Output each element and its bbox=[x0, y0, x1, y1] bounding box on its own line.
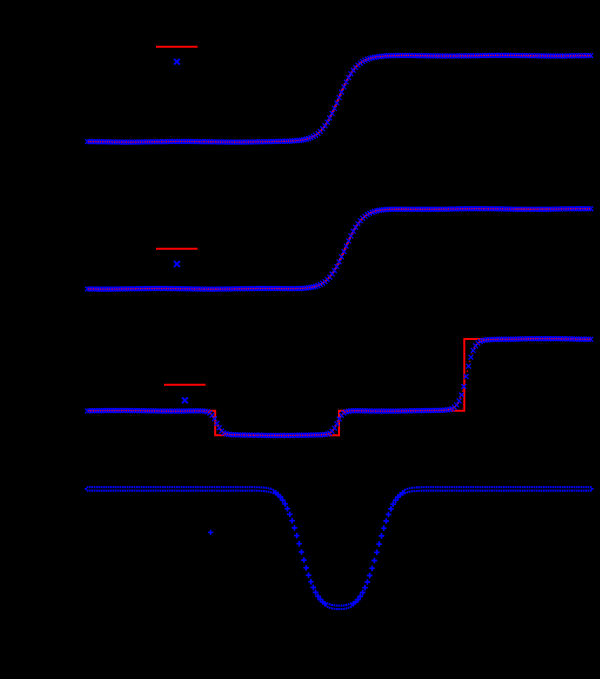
subplot1 legend blue x bbox=[174, 59, 180, 65]
subplot4 black fit line over markers bbox=[87, 489, 591, 608]
subplot2 red dotted fit line bbox=[88, 208, 590, 290]
subplot1 blue x-marker fit curve bbox=[85, 53, 593, 145]
subplot2 blue x-marker fit curve bbox=[85, 206, 593, 291]
subplot2 legend blue x bbox=[174, 261, 180, 267]
subplot3 legend red line bbox=[164, 384, 206, 386]
subplot4 blue plus-marker dip curve bbox=[85, 486, 594, 610]
subplot1 red dotted fit line bbox=[88, 55, 590, 143]
subplot3 red dotted fit line bbox=[88, 338, 590, 436]
subplot1 red target sigmoid bbox=[87, 56, 591, 142]
subplot2 red target sigmoid bbox=[87, 209, 591, 289]
subplot2 legend red line bbox=[156, 248, 198, 250]
subplot4 legend blue plus bbox=[208, 530, 213, 535]
subplot3 blue x-marker fit curve bbox=[85, 336, 593, 438]
subplot1 legend red line bbox=[156, 46, 198, 48]
subplot3 legend blue x bbox=[182, 397, 188, 403]
subplot3 red step target bbox=[87, 339, 592, 435]
